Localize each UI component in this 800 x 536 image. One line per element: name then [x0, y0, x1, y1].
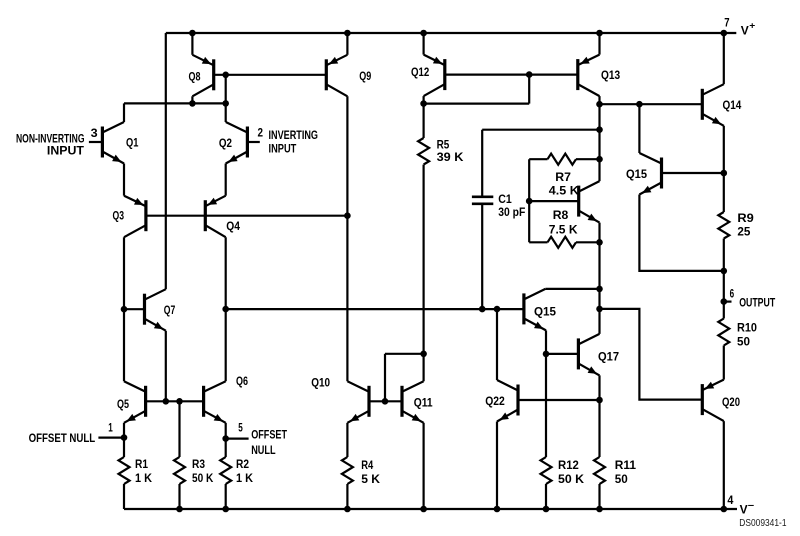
transistor Q6	[204, 381, 226, 423]
node pin 1 offset null	[121, 434, 128, 441]
wire Q11 emitter to V-	[423, 423, 425, 509]
svg-text:INPUT: INPUT	[269, 142, 297, 156]
label Q22	[485, 394, 505, 408]
label 39 K	[437, 150, 464, 164]
label OFFSET	[251, 428, 287, 442]
svg-text:OFFSET NULL: OFFSET NULL	[29, 431, 96, 445]
svg-text:R9: R9	[737, 211, 754, 225]
wire Q8 collector stub	[191, 96, 193, 103]
transistor Q8	[192, 55, 213, 97]
wire Q4 collector to Q6 collector	[225, 237, 227, 381]
node Q8 base tie	[222, 72, 229, 79]
node Q13 collector junction	[596, 101, 603, 108]
wire Q15 emitter to output	[639, 195, 723, 271]
svg-text:7.5 K: 7.5 K	[549, 223, 578, 237]
label Q7	[164, 303, 176, 317]
label 7.5 K	[549, 223, 578, 237]
svg-text:7: 7	[724, 15, 729, 29]
node Q20 base branch	[596, 306, 603, 313]
svg-text:Q14: Q14	[723, 98, 742, 112]
resistor R2	[220, 457, 231, 509]
wire Q20 collector to V-	[723, 421, 725, 509]
node Q9 emitter at V+	[344, 30, 351, 37]
label Q17	[598, 350, 619, 364]
label R11	[615, 458, 636, 472]
svg-text:−: −	[748, 501, 755, 512]
wire Q5 emitter to R1	[123, 423, 125, 457]
svg-text:Q15: Q15	[534, 305, 556, 319]
svg-text:2: 2	[258, 126, 264, 140]
wire Q1 collector	[123, 103, 125, 122]
wire Q12 collector to R5	[423, 104, 425, 138]
wire Q12 collector stub	[423, 96, 425, 104]
label 5	[238, 420, 243, 434]
wire Q11 base-collector tie riser	[384, 354, 386, 402]
node Q12 emitter at V+	[420, 30, 427, 37]
svg-text:Q2: Q2	[219, 136, 232, 150]
transistor Q7	[145, 289, 166, 331]
label Q5	[117, 397, 129, 411]
label V- supply	[740, 501, 755, 517]
svg-text:1: 1	[108, 420, 113, 434]
svg-text:Q8: Q8	[189, 70, 201, 84]
node pin 4 V-	[721, 506, 728, 513]
node Q8 collector junction	[189, 100, 196, 107]
label 1	[108, 420, 113, 434]
wire V- rail	[124, 508, 737, 510]
label Q3	[113, 209, 125, 223]
resistor R1	[119, 457, 130, 509]
svg-text:INVERTING: INVERTING	[269, 128, 319, 142]
wire pin 2 lead	[247, 141, 259, 143]
svg-text:3: 3	[91, 126, 98, 140]
transistor Q17	[578, 334, 599, 376]
transistor Q12	[424, 55, 445, 97]
resistor R3	[174, 457, 185, 509]
label INPUT	[47, 143, 85, 157]
transistor Q15 (gain stage)	[524, 289, 546, 331]
wire Q16 base lead	[529, 200, 579, 202]
wire Q8 base-collector tie	[225, 75, 227, 104]
wire Q12 emitter from V+	[423, 33, 425, 55]
svg-text:1 K: 1 K	[236, 471, 253, 485]
label R5	[437, 137, 450, 151]
label R4	[361, 458, 373, 472]
wire Q3 collector to Q5 collector	[123, 237, 125, 381]
node Q13 emitter at V+	[596, 30, 603, 37]
node R8 right	[596, 239, 603, 246]
transistor Q13	[578, 55, 600, 97]
wire Q7 emitter to Q5-Q6 base	[165, 331, 167, 402]
node Q15 collector at Q14 base	[636, 101, 643, 108]
wire Q8 emitter from V+	[191, 33, 193, 55]
label 7	[724, 15, 729, 29]
wire C1 top lead	[481, 130, 483, 196]
transistor Q20	[702, 380, 724, 422]
label 4	[727, 493, 733, 507]
wire Q17 base lead	[546, 353, 578, 355]
transistor Q1	[102, 122, 124, 164]
label NON-INVERTING	[16, 132, 85, 146]
resistor R7	[529, 154, 599, 165]
wire R7-R8 left loop	[528, 159, 530, 242]
label 4.5 K	[549, 184, 579, 198]
node Q7 base at Q3 collector	[121, 306, 128, 313]
label R9	[737, 211, 754, 225]
wire Q16 emitter to Q17 collector	[598, 223, 600, 334]
svg-text:R2: R2	[236, 457, 249, 471]
resistor R11	[594, 457, 605, 509]
svg-text:Q4: Q4	[226, 219, 240, 233]
label R2	[236, 457, 249, 471]
label Q9	[359, 69, 371, 83]
label INVERTING	[269, 128, 319, 142]
wire pin 5 lead	[226, 438, 249, 440]
wire Q15 collector riser	[638, 104, 640, 153]
svg-text:R7: R7	[555, 170, 571, 184]
label Q20	[722, 395, 740, 409]
label 30 pF	[498, 205, 525, 219]
label DS009341-1	[739, 517, 786, 529]
resistor R8	[529, 237, 599, 248]
node Q22 collector tap	[494, 306, 501, 313]
svg-text:R10: R10	[737, 321, 757, 335]
wire Q13 collector column	[598, 104, 600, 181]
wire Q13 collector to Q14 base	[600, 103, 703, 105]
resistor R12	[541, 457, 552, 509]
wire Q14 collector to V+	[723, 33, 725, 84]
node C1 top	[596, 126, 603, 133]
svg-text:Q11: Q11	[414, 395, 433, 409]
svg-text:1 K: 1 K	[135, 471, 152, 485]
wire Q12 base-collector tie horizontal	[424, 102, 530, 104]
transistor Q22	[497, 380, 518, 422]
wire R5 to Q11 collector	[423, 165, 425, 354]
label Q13	[601, 68, 620, 82]
wire Q6 emitter to R2	[225, 423, 227, 457]
transistor Q3	[124, 196, 146, 238]
label OFFSET NULL	[29, 431, 96, 445]
label 50 K	[558, 472, 584, 486]
label INPUT	[269, 142, 297, 156]
svg-text:R8: R8	[553, 208, 569, 222]
wire V+ rail	[166, 32, 737, 34]
node R3 at V-	[176, 506, 183, 513]
wire Q13 collector stub	[598, 96, 600, 104]
wire second stage input (Q4/Q6 collectors to Q15 base)	[226, 308, 524, 310]
wire R12 drop	[545, 354, 547, 457]
wire pin 1 lead	[98, 437, 124, 439]
label 50 K	[192, 471, 213, 485]
label Q10	[311, 375, 330, 389]
wire Q22 emitter to V-	[496, 422, 498, 510]
svg-text:R4: R4	[361, 458, 373, 472]
wire Q12 base-collector tie vertical	[528, 75, 530, 104]
node pin 6 output	[721, 298, 728, 305]
resistor R4	[342, 457, 353, 509]
svg-text:50: 50	[737, 335, 750, 349]
node Q2 collector junction	[222, 100, 229, 107]
node Q15 emitter tie	[721, 268, 728, 275]
wire Q9 collector to Q10 collector	[346, 96, 348, 381]
label Q2	[219, 136, 232, 150]
svg-text:50: 50	[615, 472, 628, 486]
node Q12 collector junction	[420, 100, 427, 107]
node Q22 base at Q17 emitter	[596, 397, 603, 404]
resistor R10	[718, 319, 729, 346]
label Q8	[189, 70, 201, 84]
label R3	[192, 457, 205, 471]
label Q15	[626, 167, 647, 181]
svg-text:Q6: Q6	[236, 374, 248, 388]
wire Q17 emitter to R11	[598, 375, 600, 457]
label V+ supply	[741, 21, 756, 38]
label Q12	[411, 65, 429, 79]
label Q15	[534, 305, 556, 319]
svg-text:R1: R1	[135, 457, 148, 471]
svg-text:R3: R3	[192, 457, 205, 471]
wire Q11 base-collector tie	[385, 353, 424, 355]
resistor R9	[718, 212, 729, 239]
label 50	[737, 335, 750, 349]
wire V+ rail to Q7 collector	[165, 33, 167, 289]
label 1 K	[135, 471, 152, 485]
node R2 at V-	[222, 506, 229, 513]
node Q11 emitter at V-	[420, 506, 427, 513]
node Q17 base at R12	[543, 351, 550, 358]
wire Q2 emitter to Q4 emitter	[225, 164, 227, 196]
wire C1 top to Q13 collector	[482, 129, 599, 131]
label 3	[91, 126, 98, 140]
label 6	[730, 287, 735, 301]
svg-text:Q20: Q20	[722, 395, 740, 409]
label R12	[558, 458, 579, 472]
wire Q22 base to Q17 emitter	[518, 399, 600, 401]
wire pin 6 lead	[724, 301, 732, 303]
svg-text:4: 4	[727, 493, 733, 507]
svg-text:INPUT: INPUT	[47, 143, 85, 157]
node pin 5 offset null	[222, 435, 229, 442]
node Q3-Q4 base at Q9 collector	[344, 212, 351, 219]
wire pin 3 lead	[89, 141, 103, 143]
wire Q10-Q11 base	[369, 400, 402, 402]
svg-text:Q15: Q15	[626, 167, 647, 181]
label 2	[258, 126, 264, 140]
svg-text:Q22: Q22	[485, 394, 505, 408]
node Q7 emitter at base line	[163, 398, 170, 405]
node Q15 collector at gain stage	[596, 286, 603, 293]
svg-text:5 K: 5 K	[361, 472, 380, 486]
node Q22 emitter at V-	[494, 506, 501, 513]
label 5 K	[361, 472, 380, 486]
transistor Q15 (current limit)	[639, 153, 661, 195]
svg-text:DS009341-1: DS009341-1	[739, 517, 786, 529]
wire C1 bottom lead	[481, 205, 483, 310]
wire Q2 collector	[225, 103, 227, 122]
svg-text:30 pF: 30 pF	[498, 205, 525, 219]
transistor Q2	[226, 122, 248, 164]
wire Q9 emitter from V+	[346, 33, 348, 55]
wire Q15 collector link	[545, 288, 599, 290]
svg-text:OUTPUT: OUTPUT	[739, 296, 775, 310]
svg-text:Q7: Q7	[164, 303, 176, 317]
node Q15 base at Q14 emitter	[721, 170, 728, 177]
label 25	[737, 224, 750, 238]
svg-text:Q17: Q17	[598, 350, 619, 364]
svg-text:Q3: Q3	[113, 209, 125, 223]
node Q10-Q11 base tie	[382, 398, 389, 405]
capacitor C1	[472, 197, 493, 204]
transistor Q10	[347, 381, 369, 423]
svg-text:NULL: NULL	[251, 443, 276, 457]
wire Q1 emitter to Q3 emitter	[123, 164, 125, 196]
wire Q10 emitter to R4	[346, 423, 348, 457]
node R3 top	[176, 398, 183, 405]
label Q6	[236, 374, 248, 388]
transistor Q14	[702, 84, 724, 126]
node Q11 collector tie	[420, 351, 427, 358]
label Q1	[126, 136, 139, 150]
wire Q8-Q9 base	[214, 74, 327, 76]
transistor Q11	[402, 381, 424, 423]
label C1	[498, 192, 512, 206]
label R8	[553, 208, 569, 222]
wire Q22 collector drop	[496, 309, 498, 380]
svg-text:6: 6	[730, 287, 735, 301]
label OUTPUT	[739, 296, 775, 310]
wire Q15 emitter to Q17 base	[545, 330, 547, 354]
node R12 at V-	[543, 506, 550, 513]
wire R9 to output node	[723, 239, 725, 319]
node second stage input	[222, 306, 229, 313]
wire R10 to Q20 emitter	[723, 346, 725, 380]
wire Q11 collector	[423, 354, 425, 382]
svg-text:Q13: Q13	[601, 68, 620, 82]
node Q8 emitter at V+	[189, 30, 196, 37]
transistor Q16 (unlabeled VBE multiplier)	[579, 181, 600, 223]
wire Q3-Q4 base to Q9 collector	[146, 215, 348, 217]
svg-text:5: 5	[238, 420, 243, 434]
wire R3 to base line	[178, 401, 180, 457]
svg-text:OFFSET: OFFSET	[251, 428, 287, 442]
svg-text:Q9: Q9	[359, 69, 371, 83]
svg-text:39 K: 39 K	[437, 150, 464, 164]
svg-text:+: +	[749, 21, 755, 32]
label NULL	[251, 443, 276, 457]
wire Q7 base lead	[124, 308, 145, 310]
label R1	[135, 457, 148, 471]
label Q14	[723, 98, 742, 112]
node R7-R8 junction at Q16 base	[526, 198, 533, 205]
wire Q15 base to Q14 emitter	[662, 172, 724, 174]
svg-text:50 K: 50 K	[558, 472, 584, 486]
svg-text:Q10: Q10	[311, 375, 330, 389]
node Q12 base tie	[526, 71, 533, 78]
svg-text:R11: R11	[615, 458, 636, 472]
wire Q13 emitter from V+	[598, 33, 600, 55]
wire Q17 collector to Q20 base branch	[600, 309, 703, 400]
wire Q14 emitter to R9	[723, 126, 725, 212]
wire Q12-Q13 base	[445, 73, 578, 75]
svg-text:R12: R12	[558, 458, 579, 472]
wire Q5-Q6 base	[146, 400, 204, 402]
wire Q1-Q2 collector bus	[124, 102, 226, 104]
label R10	[737, 321, 757, 335]
svg-text:4.5 K: 4.5 K	[549, 184, 579, 198]
label 50	[615, 472, 628, 486]
svg-text:50 K: 50 K	[192, 471, 213, 485]
transistor Q9	[326, 55, 347, 97]
node R7 right	[596, 156, 603, 163]
label Q11	[414, 395, 433, 409]
svg-text:Q5: Q5	[117, 397, 129, 411]
label R7	[555, 170, 571, 184]
label 1 K	[236, 471, 253, 485]
transistor Q5	[124, 381, 146, 423]
resistor R5	[418, 138, 429, 165]
svg-text:Q12: Q12	[411, 65, 429, 79]
node pin 7 V+	[721, 30, 728, 37]
node C1 bottom	[479, 306, 486, 313]
label Q4	[226, 219, 240, 233]
svg-text:Q1: Q1	[126, 136, 139, 150]
transistor Q4	[205, 196, 225, 238]
node R4 at V-	[344, 506, 351, 513]
svg-text:25: 25	[737, 224, 750, 238]
node R11 at V-	[596, 506, 603, 513]
